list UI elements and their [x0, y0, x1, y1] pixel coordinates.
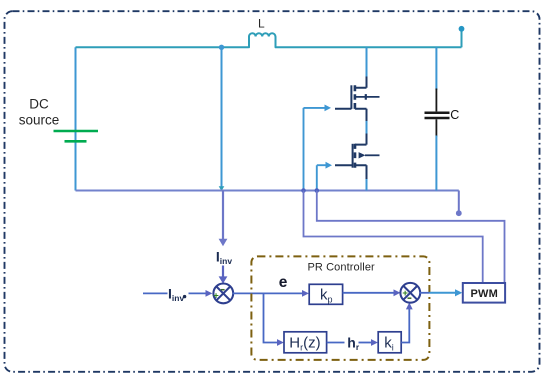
wire: DC-link vertical [221, 47, 223, 190]
summing junction S1 [213, 284, 233, 304]
wire: bottom rail [76, 190, 459, 192]
wire: measured current into summer S1 [222, 266, 224, 278]
node: top-right terminal dot [459, 26, 465, 32]
wire: top rail right [276, 46, 462, 48]
wire: PWM gate feed 1 [304, 191, 483, 284]
wire: current sense arrow Iinv [222, 191, 224, 240]
wire: reference input second segment [189, 292, 207, 294]
PR Controller box [251, 256, 429, 360]
node: junction on top rail [219, 45, 224, 50]
arrowhead into kp [302, 290, 309, 297]
block kp [309, 284, 342, 304]
wire: error signal e [233, 292, 303, 294]
arrowhead into S2 bottom [406, 303, 413, 310]
wire: gate drive to Q1 [304, 108, 326, 191]
wire: reference input [143, 292, 168, 294]
wire: stub to top-right node [461, 30, 463, 47]
block PWM [463, 283, 505, 303]
node: junction dot gate1 on bottom rail [301, 188, 306, 193]
wire: S2 output outside PR box [429, 292, 455, 294]
wire: kp output to S2 [343, 292, 394, 294]
svg-text:+: + [402, 288, 408, 299]
transistor Q2 body arrow [359, 152, 366, 158]
wire: Hr output [327, 342, 345, 344]
label DC source [19, 97, 60, 128]
svg-text:+: + [213, 291, 219, 302]
svg-text:e: e [279, 274, 288, 291]
wire: S2 output to PWM [420, 292, 430, 294]
svg-text:Hr(z): Hr(z) [289, 334, 320, 352]
wire: Q2 source to bottom rail [366, 179, 368, 191]
arrowhead Iinv [219, 239, 228, 246]
arrowhead into ki [371, 339, 378, 346]
capacitor C [425, 89, 450, 137]
transistor Q1 (upper MOSFET) [335, 77, 380, 122]
svg-text:DC: DC [29, 97, 49, 112]
block ki [378, 332, 401, 353]
S2 minus sign [408, 297, 412, 299]
node: output sense dot [456, 210, 462, 216]
wire: gate drive to Q2 [317, 165, 326, 190]
arrowhead into S1 top [219, 276, 228, 283]
S1 minus sign [221, 289, 225, 291]
arrowhead into Hr [277, 339, 284, 346]
wire: capacitor top lead [435, 47, 437, 90]
arrowhead into PWM [455, 289, 462, 296]
wire: hr to ki [359, 342, 372, 344]
inductor L [249, 33, 276, 47]
svg-text:PR Controller: PR Controller [308, 261, 376, 273]
arrowhead at DC-link to bottom rail [219, 186, 225, 191]
summing junction S2 [400, 283, 420, 303]
arrowhead into S2 left [394, 289, 401, 296]
transistor Q2 (lower MOSFET) [335, 134, 380, 180]
wire: leg from top rail to Q1 drain [366, 47, 368, 77]
battery V1 (DC source) [54, 131, 99, 141]
wire: ki output up to S2 [401, 309, 409, 343]
wire: bridge midpoint segment [366, 121, 368, 134]
svg-text:L: L [258, 17, 265, 31]
wire: branch from e down to Hr [264, 293, 278, 342]
node: junction dot gate2 on bottom rail [315, 188, 320, 193]
svg-text:PWM: PWM [471, 288, 498, 300]
arrowhead gate Q2 [326, 162, 333, 169]
wire: bottom rail drop to output node [458, 191, 460, 212]
block Hr(z) [284, 332, 327, 353]
svg-text:source: source [19, 113, 60, 128]
wire: top rail left [76, 46, 249, 48]
wire: PWM gate feed 2 [317, 191, 505, 284]
wire: DC source positive lead [75, 47, 77, 190]
svg-text:C: C [450, 108, 459, 122]
arrowhead into S1 left [206, 290, 213, 297]
wire: capacitor bottom lead [435, 136, 437, 191]
arrowhead gate Q1 [325, 105, 332, 112]
